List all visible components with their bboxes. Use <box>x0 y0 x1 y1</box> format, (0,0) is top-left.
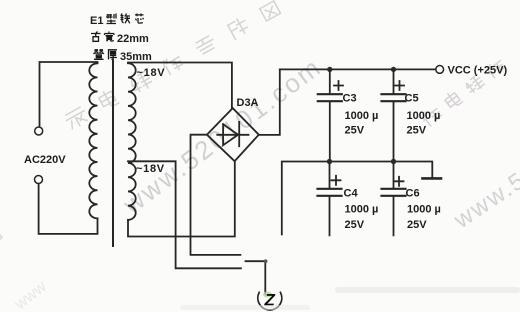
capacitor C4 <box>318 162 342 236</box>
wire middle rail <box>282 162 433 235</box>
svg-text:~18V: ~18V <box>136 163 165 175</box>
transformer primary terminal (bottom) <box>35 176 43 184</box>
node junction C3/rail <box>327 67 332 72</box>
node Z (off-page connector) <box>263 292 272 298</box>
svg-text:AC220V: AC220V <box>24 154 66 166</box>
svg-text:C4: C4 <box>344 188 359 200</box>
svg-text:1000 µ: 1000 µ <box>345 110 379 122</box>
svg-text:1000 µ: 1000 µ <box>407 204 441 216</box>
label transformer spec E1型铁芯 舌宽22mm 叠厚35mm <box>90 14 152 64</box>
svg-text:C3: C3 <box>343 93 357 105</box>
capacitor C3 <box>318 69 343 161</box>
wire bridge positive output <box>259 69 280 134</box>
svg-text:D3A: D3A <box>237 97 259 109</box>
svg-text:35mm: 35mm <box>120 51 152 63</box>
wire primary top lead <box>40 62 98 127</box>
svg-text:~18V: ~18V <box>137 67 166 79</box>
svg-text:25V: 25V <box>407 125 427 137</box>
wire to ground connector Z <box>246 261 266 294</box>
node junction C4/rail <box>327 159 332 164</box>
node junction C6/rail <box>391 159 396 164</box>
svg-text:VCC (+25V): VCC (+25V) <box>448 65 508 77</box>
svg-text:25V: 25V <box>345 219 365 231</box>
svg-text:C6: C6 <box>406 188 420 200</box>
svg-text:E1: E1 <box>90 15 103 27</box>
wire secondary bottom lead to bridge bottom <box>128 161 235 237</box>
wire VCC rail <box>280 68 436 70</box>
ground <box>423 177 442 180</box>
wire primary bottom lead <box>39 184 98 234</box>
transformer primary winding <box>89 63 97 218</box>
svg-text:1000 µ: 1000 µ <box>407 110 441 122</box>
transformer primary terminal (top) <box>35 127 43 135</box>
wire secondary center tap <box>128 161 241 268</box>
transformer core <box>112 60 114 246</box>
node junction C5/rail <box>391 67 396 72</box>
wire bridge negative output <box>191 135 241 255</box>
terminal VCC <box>436 66 444 74</box>
capacitor C6 <box>382 162 406 236</box>
svg-text:C5: C5 <box>405 93 419 105</box>
svg-text:22mm: 22mm <box>117 33 149 45</box>
wire secondary top tap to bridge <box>128 63 232 109</box>
capacitor C5 <box>382 69 406 161</box>
svg-text:1000 µ: 1000 µ <box>345 204 379 216</box>
bridge rectifier D3A <box>207 108 259 161</box>
transformer secondary winding <box>128 63 136 220</box>
svg-text:25V: 25V <box>407 219 427 231</box>
svg-text:25V: 25V <box>345 125 365 137</box>
